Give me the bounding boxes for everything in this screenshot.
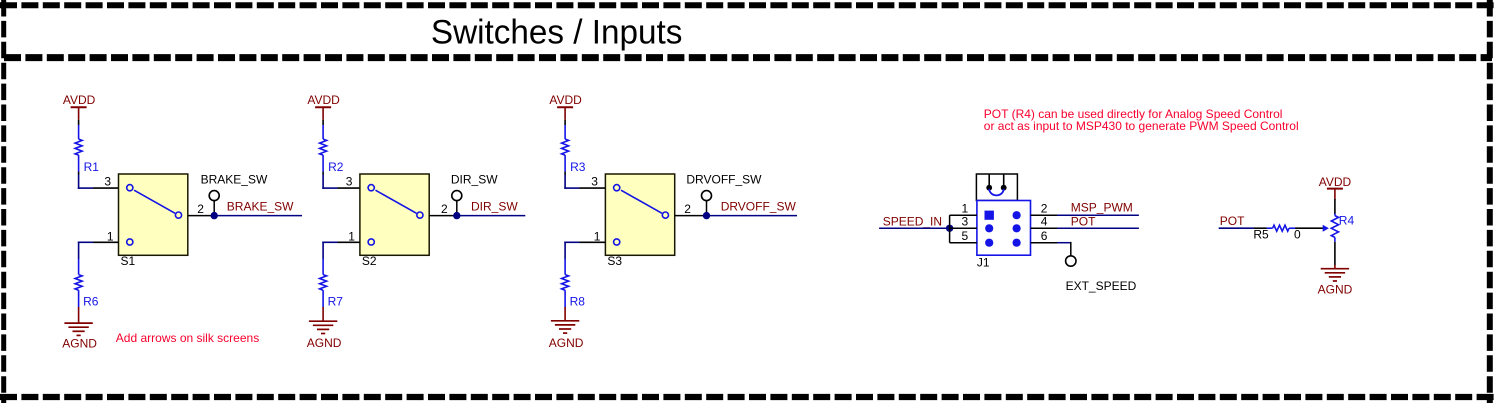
- connector J1 body: [977, 201, 1031, 256]
- wire net BRAKE_SW: [214, 215, 302, 217]
- wire SPEED_IN to pins 1 3 5: [950, 215, 977, 243]
- svg-text:AVDD: AVDD: [1319, 175, 1352, 189]
- svg-text:EXT_SPEED: EXT_SPEED: [1066, 279, 1137, 293]
- switch S1: [119, 174, 188, 255]
- wire AVDD to R4: [1334, 199, 1336, 214]
- connection stub DRVOFF_SW: [702, 191, 712, 216]
- svg-text:3: 3: [962, 215, 969, 229]
- svg-text:AVDD: AVDD: [63, 93, 96, 107]
- resistor R7: [320, 259, 344, 309]
- wire pin 1 of S1 to R6: [78, 242, 119, 260]
- svg-text:3: 3: [346, 175, 353, 189]
- svg-text:MSP_PWM: MSP_PWM: [1071, 201, 1133, 215]
- wire pin 2 of S2: [429, 215, 457, 217]
- resistor R1: [75, 125, 99, 174]
- wire pin 1 of S3 to R8: [564, 242, 605, 260]
- svg-text:S2: S2: [362, 254, 377, 268]
- resistor R8: [562, 259, 586, 309]
- ground AGND (pot): [1318, 269, 1353, 297]
- svg-text:R5: R5: [1253, 228, 1269, 242]
- svg-text:S1: S1: [121, 254, 136, 268]
- potentiometer R4: [1323, 213, 1355, 242]
- svg-text:0: 0: [1294, 228, 1301, 242]
- wire net DIR_SW: [457, 215, 526, 217]
- svg-text:AGND: AGND: [307, 336, 342, 350]
- junction DRVOFF_SW: [703, 212, 710, 219]
- svg-text:1: 1: [594, 230, 601, 244]
- wire R3 to pin 3 of S3: [564, 172, 605, 189]
- wire pin 4 of J1: [1031, 227, 1058, 229]
- resistor R6: [75, 259, 99, 309]
- resistor R5: [1253, 225, 1295, 242]
- svg-text:AGND: AGND: [1318, 283, 1353, 297]
- svg-text:DRVOFF_SW: DRVOFF_SW: [721, 200, 797, 214]
- svg-text:BRAKE_SW: BRAKE_SW: [227, 200, 294, 214]
- wire AVDD to R3: [564, 120, 566, 125]
- connection stub BRAKE_SW: [209, 191, 219, 216]
- svg-text:R2: R2: [328, 160, 344, 174]
- svg-text:2: 2: [441, 202, 448, 216]
- svg-text:POT: POT: [1220, 214, 1245, 228]
- switch S3: [605, 174, 674, 255]
- svg-text:R6: R6: [83, 295, 99, 309]
- svg-text:SPEED_IN: SPEED_IN: [883, 215, 942, 229]
- svg-text:R4: R4: [1339, 213, 1355, 227]
- svg-text:2: 2: [684, 202, 691, 216]
- wire R8 to ground: [564, 307, 566, 321]
- svg-text:3: 3: [104, 175, 111, 189]
- svg-text:AGND: AGND: [549, 336, 584, 350]
- svg-text:2: 2: [197, 202, 204, 216]
- wire AVDD to R2: [322, 120, 324, 125]
- svg-text:AVDD: AVDD: [549, 93, 582, 107]
- svg-text:AVDD: AVDD: [307, 93, 340, 107]
- connection stub EXT_SPEED: [1066, 256, 1076, 266]
- svg-text:5: 5: [962, 229, 969, 243]
- svg-text:BRAKE_SW: BRAKE_SW: [201, 173, 268, 187]
- svg-text:1: 1: [107, 230, 114, 244]
- svg-text:DIR_SW: DIR_SW: [471, 200, 518, 214]
- power symbol AVDD (pot): [1319, 175, 1352, 200]
- wire net MSP_PWM: [1057, 214, 1139, 216]
- wire pin 2 of S3: [675, 215, 707, 217]
- wire net POT to R5: [1219, 227, 1267, 229]
- wire R5 to R4 wiper: [1295, 227, 1323, 229]
- ground AGND (S1 pull-down): [62, 323, 97, 351]
- svg-text:DIR_SW: DIR_SW: [451, 173, 498, 187]
- wire pin 2 of J1: [1031, 214, 1058, 216]
- svg-text:Switches / Inputs: Switches / Inputs: [431, 14, 683, 52]
- wire pin 1 of S2 to R7: [322, 242, 360, 260]
- resistor R2: [320, 125, 344, 174]
- annotation: POT usage note: [984, 107, 1299, 133]
- svg-text:3: 3: [591, 175, 598, 189]
- svg-text:1: 1: [962, 202, 969, 216]
- svg-text:DRVOFF_SW: DRVOFF_SW: [686, 173, 762, 187]
- svg-text:4: 4: [1041, 215, 1048, 229]
- wire net SPEED_IN: [879, 227, 950, 229]
- power symbol AVDD (S1 pull-up): [63, 93, 96, 120]
- wire R2 to pin 3 of S2: [322, 172, 360, 189]
- connection stub DIR_SW: [452, 191, 462, 216]
- svg-text:2: 2: [1041, 202, 1048, 216]
- svg-text:J1: J1: [977, 256, 990, 270]
- wire pin 2 of S1: [188, 215, 214, 217]
- wire net POT: [1057, 227, 1139, 229]
- svg-text:POT: POT: [1071, 214, 1096, 228]
- ground AGND (S2 pull-down): [307, 321, 342, 350]
- svg-text:AGND: AGND: [62, 337, 97, 351]
- power symbol AVDD (S2 pull-up): [307, 93, 340, 120]
- wire R4 to ground: [1334, 242, 1336, 269]
- svg-text:S3: S3: [607, 254, 622, 268]
- wire R1 to pin 3 of S1: [78, 172, 119, 189]
- junction DIR_SW: [453, 212, 460, 219]
- svg-text:R1: R1: [84, 160, 100, 174]
- wire pin 6 of J1 to EXT_SPEED stub: [1031, 242, 1071, 256]
- junction BRAKE_SW: [211, 212, 218, 219]
- power symbol AVDD (S3 pull-up): [549, 93, 582, 120]
- wire R6 to ground: [78, 307, 80, 323]
- resistor R3: [562, 125, 586, 174]
- svg-text:1: 1: [348, 230, 355, 244]
- svg-text:R8: R8: [570, 295, 586, 309]
- switch S2: [360, 174, 429, 255]
- svg-text:R3: R3: [570, 160, 586, 174]
- svg-text:or act as input to MSP430 to g: or act as input to MSP430 to generate PW…: [984, 119, 1299, 133]
- svg-text:Add arrows on silk screens: Add arrows on silk screens: [116, 331, 259, 345]
- junction SPEED_IN: [946, 225, 953, 232]
- svg-text:R7: R7: [328, 295, 344, 309]
- wire AVDD to R1: [78, 120, 80, 125]
- ground AGND (S3 pull-down): [549, 321, 584, 350]
- svg-text:6: 6: [1041, 229, 1048, 243]
- wire R7 to ground: [322, 307, 324, 321]
- jumper shunt on J1: [976, 174, 1017, 201]
- wire net DRVOFF_SW: [707, 215, 798, 217]
